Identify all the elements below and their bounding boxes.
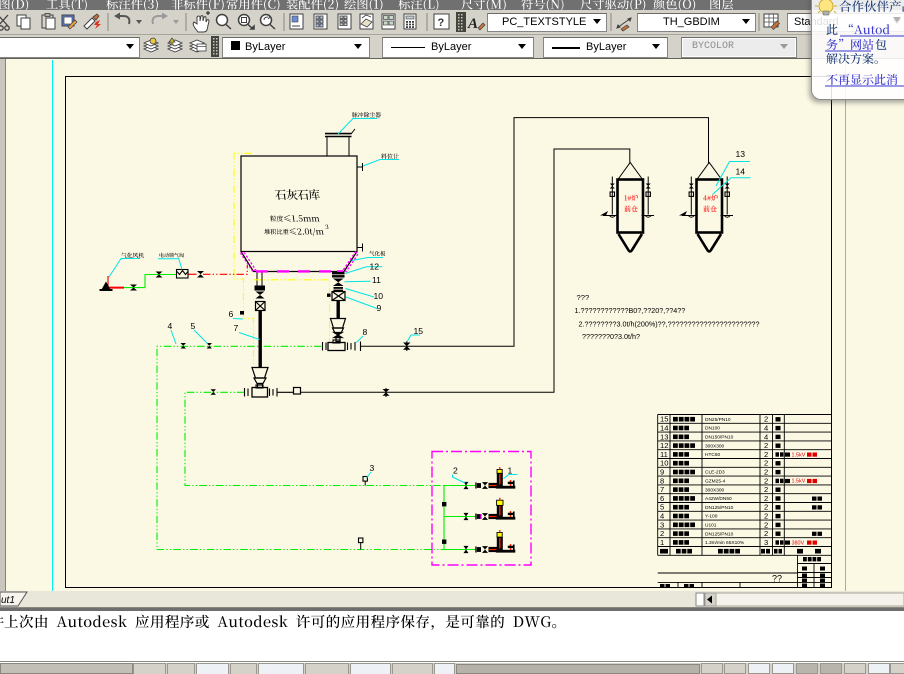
svg-text:2: 2	[764, 459, 768, 468]
svg-text:2: 2	[764, 450, 768, 459]
svg-text:??: ??	[772, 574, 782, 584]
label 脉冲除尘器	[338, 119, 377, 135]
BOM table	[658, 415, 832, 556]
svg-text:???: ???	[577, 293, 590, 302]
svg-text:2: 2	[764, 415, 768, 424]
wire: conveying pipe route A (silo right outlet to vessel 2)	[361, 118, 709, 347]
vessel 1 red tag	[625, 195, 639, 202]
leader for item 9	[346, 297, 377, 309]
svg-text:3: 3	[764, 538, 768, 547]
magenta liner dashes on hopper slopes	[241, 252, 256, 272]
svg-text:1.5kV: 1.5kV	[792, 479, 806, 485]
feeder funnel (right)	[331, 319, 346, 342]
svg-text:DN25/PN10: DN25/PN10	[705, 417, 731, 423]
pressure sensor item 3	[363, 477, 367, 482]
wire: red supply at blower	[103, 287, 124, 289]
svg-text:2: 2	[764, 512, 768, 521]
svg-text:10: 10	[374, 291, 384, 301]
svg-text:300X300: 300X300	[705, 443, 725, 449]
label 电动锁气阀	[158, 259, 182, 270]
rotary feeder 电动锁气阀	[177, 270, 189, 279]
leader for item 10	[346, 289, 375, 298]
leader for item 11	[345, 280, 371, 283]
title block	[658, 555, 832, 588]
silo vent stack	[327, 137, 349, 157]
svg-text:8: 8	[363, 327, 368, 337]
pump assembly 1	[464, 482, 469, 489]
svg-text:13: 13	[660, 432, 668, 441]
gate valve item 6 (box with X)	[256, 302, 266, 311]
pump assembly 3	[464, 546, 469, 553]
leader for item 2	[453, 475, 466, 484]
vessel 2 side valves	[689, 184, 694, 189]
svg-text:HTC50: HTC50	[705, 452, 721, 458]
svg-text:5: 5	[191, 321, 196, 331]
svg-text:2: 2	[764, 476, 768, 485]
wire: red line from rotary feeder to hopper	[188, 273, 197, 275]
svg-text:1.5kV: 1.5kV	[792, 452, 806, 458]
blower 气化风机	[100, 282, 113, 292]
butterfly valve item 11	[333, 279, 344, 287]
silo right nozzle (lower)	[357, 247, 363, 249]
svg-text:???????0?3.0t/h?: ???????0?3.0t/h?	[582, 332, 640, 341]
svg-text:DN125/PN10: DN125/PN10	[705, 531, 734, 537]
silo right outlet stub	[334, 272, 336, 273]
valve item 5 on green line	[207, 343, 213, 349]
gate valve item 9 (box with X)	[332, 292, 345, 301]
svg-text:A42W/DN50: A42W/DN50	[705, 496, 732, 502]
flange pair item 10	[334, 287, 344, 289]
svg-text:1.3m/min 65X10%: 1.3m/min 65X10%	[705, 540, 745, 546]
svg-text:9: 9	[377, 303, 382, 313]
leader for item 15	[407, 335, 420, 342]
svg-text:CLE-2D3: CLE-2D3	[705, 470, 725, 476]
svg-text:4: 4	[764, 432, 768, 441]
vessel 2 red tag	[703, 195, 718, 202]
valve on green riser run	[156, 272, 163, 278]
vessel 2 inlet arrow	[679, 211, 687, 216]
vessel 1 side valves	[610, 184, 615, 189]
svg-text:2: 2	[764, 529, 768, 538]
svg-text:2: 2	[764, 520, 768, 529]
svg-text:4: 4	[660, 512, 664, 521]
svg-text:15: 15	[660, 415, 668, 424]
vessel 1 仓泵	[603, 163, 654, 252]
leader for item 6	[233, 318, 243, 321]
wire: green piping at blower assembly	[124, 275, 176, 288]
pump assembly 2	[464, 513, 469, 520]
bottom strip marks	[660, 584, 665, 588]
paper limit line right	[845, 60, 847, 591]
flange item 12	[332, 272, 345, 274]
wire: yellow air line horizontal to right outlet	[254, 280, 330, 341]
svg-text:9: 9	[660, 468, 664, 477]
svg-text:2: 2	[764, 494, 768, 503]
leader for item 12	[345, 267, 382, 274]
svg-text:13: 13	[736, 149, 746, 159]
magenta tick on pump 2 inlet	[480, 514, 482, 519]
svg-text:4: 4	[168, 321, 173, 331]
svg-text:6: 6	[660, 494, 664, 503]
svg-text:2: 2	[764, 503, 768, 512]
wire: green header inside pump skid	[443, 486, 445, 550]
svg-text:2: 2	[764, 468, 768, 477]
svg-text:4: 4	[764, 424, 768, 433]
svg-text:2: 2	[453, 466, 458, 476]
svg-text:3: 3	[660, 520, 664, 529]
inline box on route B	[294, 388, 301, 395]
fittings on green header	[442, 502, 446, 506]
svg-text:300X300: 300X300	[705, 487, 725, 493]
tiny mark next to 6	[240, 311, 244, 315]
valve on blower outlet	[130, 285, 137, 291]
svg-text:11: 11	[372, 275, 381, 285]
silo hopper	[241, 252, 357, 272]
svg-text:12: 12	[660, 441, 668, 450]
svg-text:3: 3	[370, 463, 375, 473]
pressure sensor on lower green line	[359, 538, 363, 543]
text 粒度≤1.5mm	[270, 215, 283, 221]
wire: conveying pipe route B (silo left outlet to vessel 1)	[301, 149, 630, 392]
svg-text:U101: U101	[705, 523, 717, 529]
label 气化风机	[109, 259, 140, 278]
ejector tee (right) item 8	[323, 340, 361, 351]
vessel 2 仓泵	[682, 163, 733, 252]
drawing frame	[66, 77, 832, 588]
notes 说明 (shown as ???)	[575, 293, 760, 341]
butterfly valve	[256, 292, 265, 299]
leader for item 7	[239, 333, 260, 340]
text 石灰石库	[275, 189, 320, 200]
silo right nozzle (upper level gauge)	[357, 166, 363, 168]
label 料位计	[363, 160, 399, 167]
svg-text:380V: 380V	[792, 540, 805, 546]
wire: green dash-dot to left outlet ejector	[185, 392, 444, 485]
silo left outlet stub	[256, 272, 258, 286]
svg-text:7: 7	[234, 323, 239, 333]
valve on green line to left ejector	[211, 389, 217, 395]
valve item 4 on green line	[181, 343, 187, 349]
leader for item 1	[504, 475, 518, 479]
svg-text:2: 2	[660, 529, 664, 538]
svg-text:1: 1	[660, 538, 664, 547]
svg-text:Y-100: Y-100	[705, 514, 718, 520]
valve after rotary feeder	[197, 271, 204, 278]
label 气化板	[352, 258, 383, 261]
leader for item 8	[357, 336, 364, 343]
svg-text:7: 7	[660, 485, 664, 494]
svg-text:10: 10	[660, 459, 668, 468]
svg-text:DN100: DN100	[705, 426, 720, 432]
silo body 石灰石库	[241, 156, 357, 252]
svg-text:1.????????????B0?,??20?,??4??: 1.????????????B0?,??20?,??4??	[575, 306, 686, 315]
svg-text:14: 14	[660, 424, 668, 433]
vessel 1 inlet arrow	[600, 211, 608, 216]
paper limit line left	[52, 60, 54, 591]
magenta dash-dot boundary of pump skid	[432, 452, 531, 566]
svg-text:8: 8	[660, 476, 664, 485]
valve item 15	[403, 343, 411, 350]
leader for item 5	[194, 330, 208, 344]
svg-text:1: 1	[508, 466, 513, 476]
leader for item 13	[716, 162, 750, 187]
leader for item 14	[713, 178, 751, 195]
svg-text:6: 6	[229, 309, 234, 319]
valve on route B	[383, 389, 390, 396]
tiny mark next to right gate valve	[327, 294, 331, 297]
svg-text:GZM25-4: GZM25-4	[705, 479, 726, 485]
thick conveying pipe (right)	[337, 301, 340, 319]
svg-text:DN150/PN10: DN150/PN10	[705, 435, 734, 441]
wire: green dash-dot to right outlet ejector	[157, 346, 444, 549]
text 堆积比重≤2.0t/m3	[264, 229, 288, 235]
wire: yellow air line at silo left	[234, 153, 254, 366]
svg-text:11: 11	[660, 450, 668, 459]
svg-text:14: 14	[736, 167, 746, 177]
leader for item 3	[367, 472, 372, 478]
svg-text:2: 2	[764, 485, 768, 494]
svg-text:2: 2	[764, 441, 768, 450]
svg-text:12: 12	[370, 262, 380, 272]
svg-text:15: 15	[414, 326, 424, 336]
leader for item 4	[171, 330, 176, 344]
feeder funnel (left)	[252, 368, 268, 388]
svg-text:5: 5	[660, 503, 664, 512]
svg-text:2.????????3.0t/h(200%)??,?????: 2.????????3.0t/h(200%)??,???????????????…	[579, 320, 760, 329]
thick conveying pipe (left) item 7	[259, 311, 262, 368]
svg-text:DN125/PN10: DN125/PN10	[705, 505, 734, 511]
ejector tee (left)	[245, 385, 301, 397]
flange pair below left outlet	[255, 286, 266, 291]
